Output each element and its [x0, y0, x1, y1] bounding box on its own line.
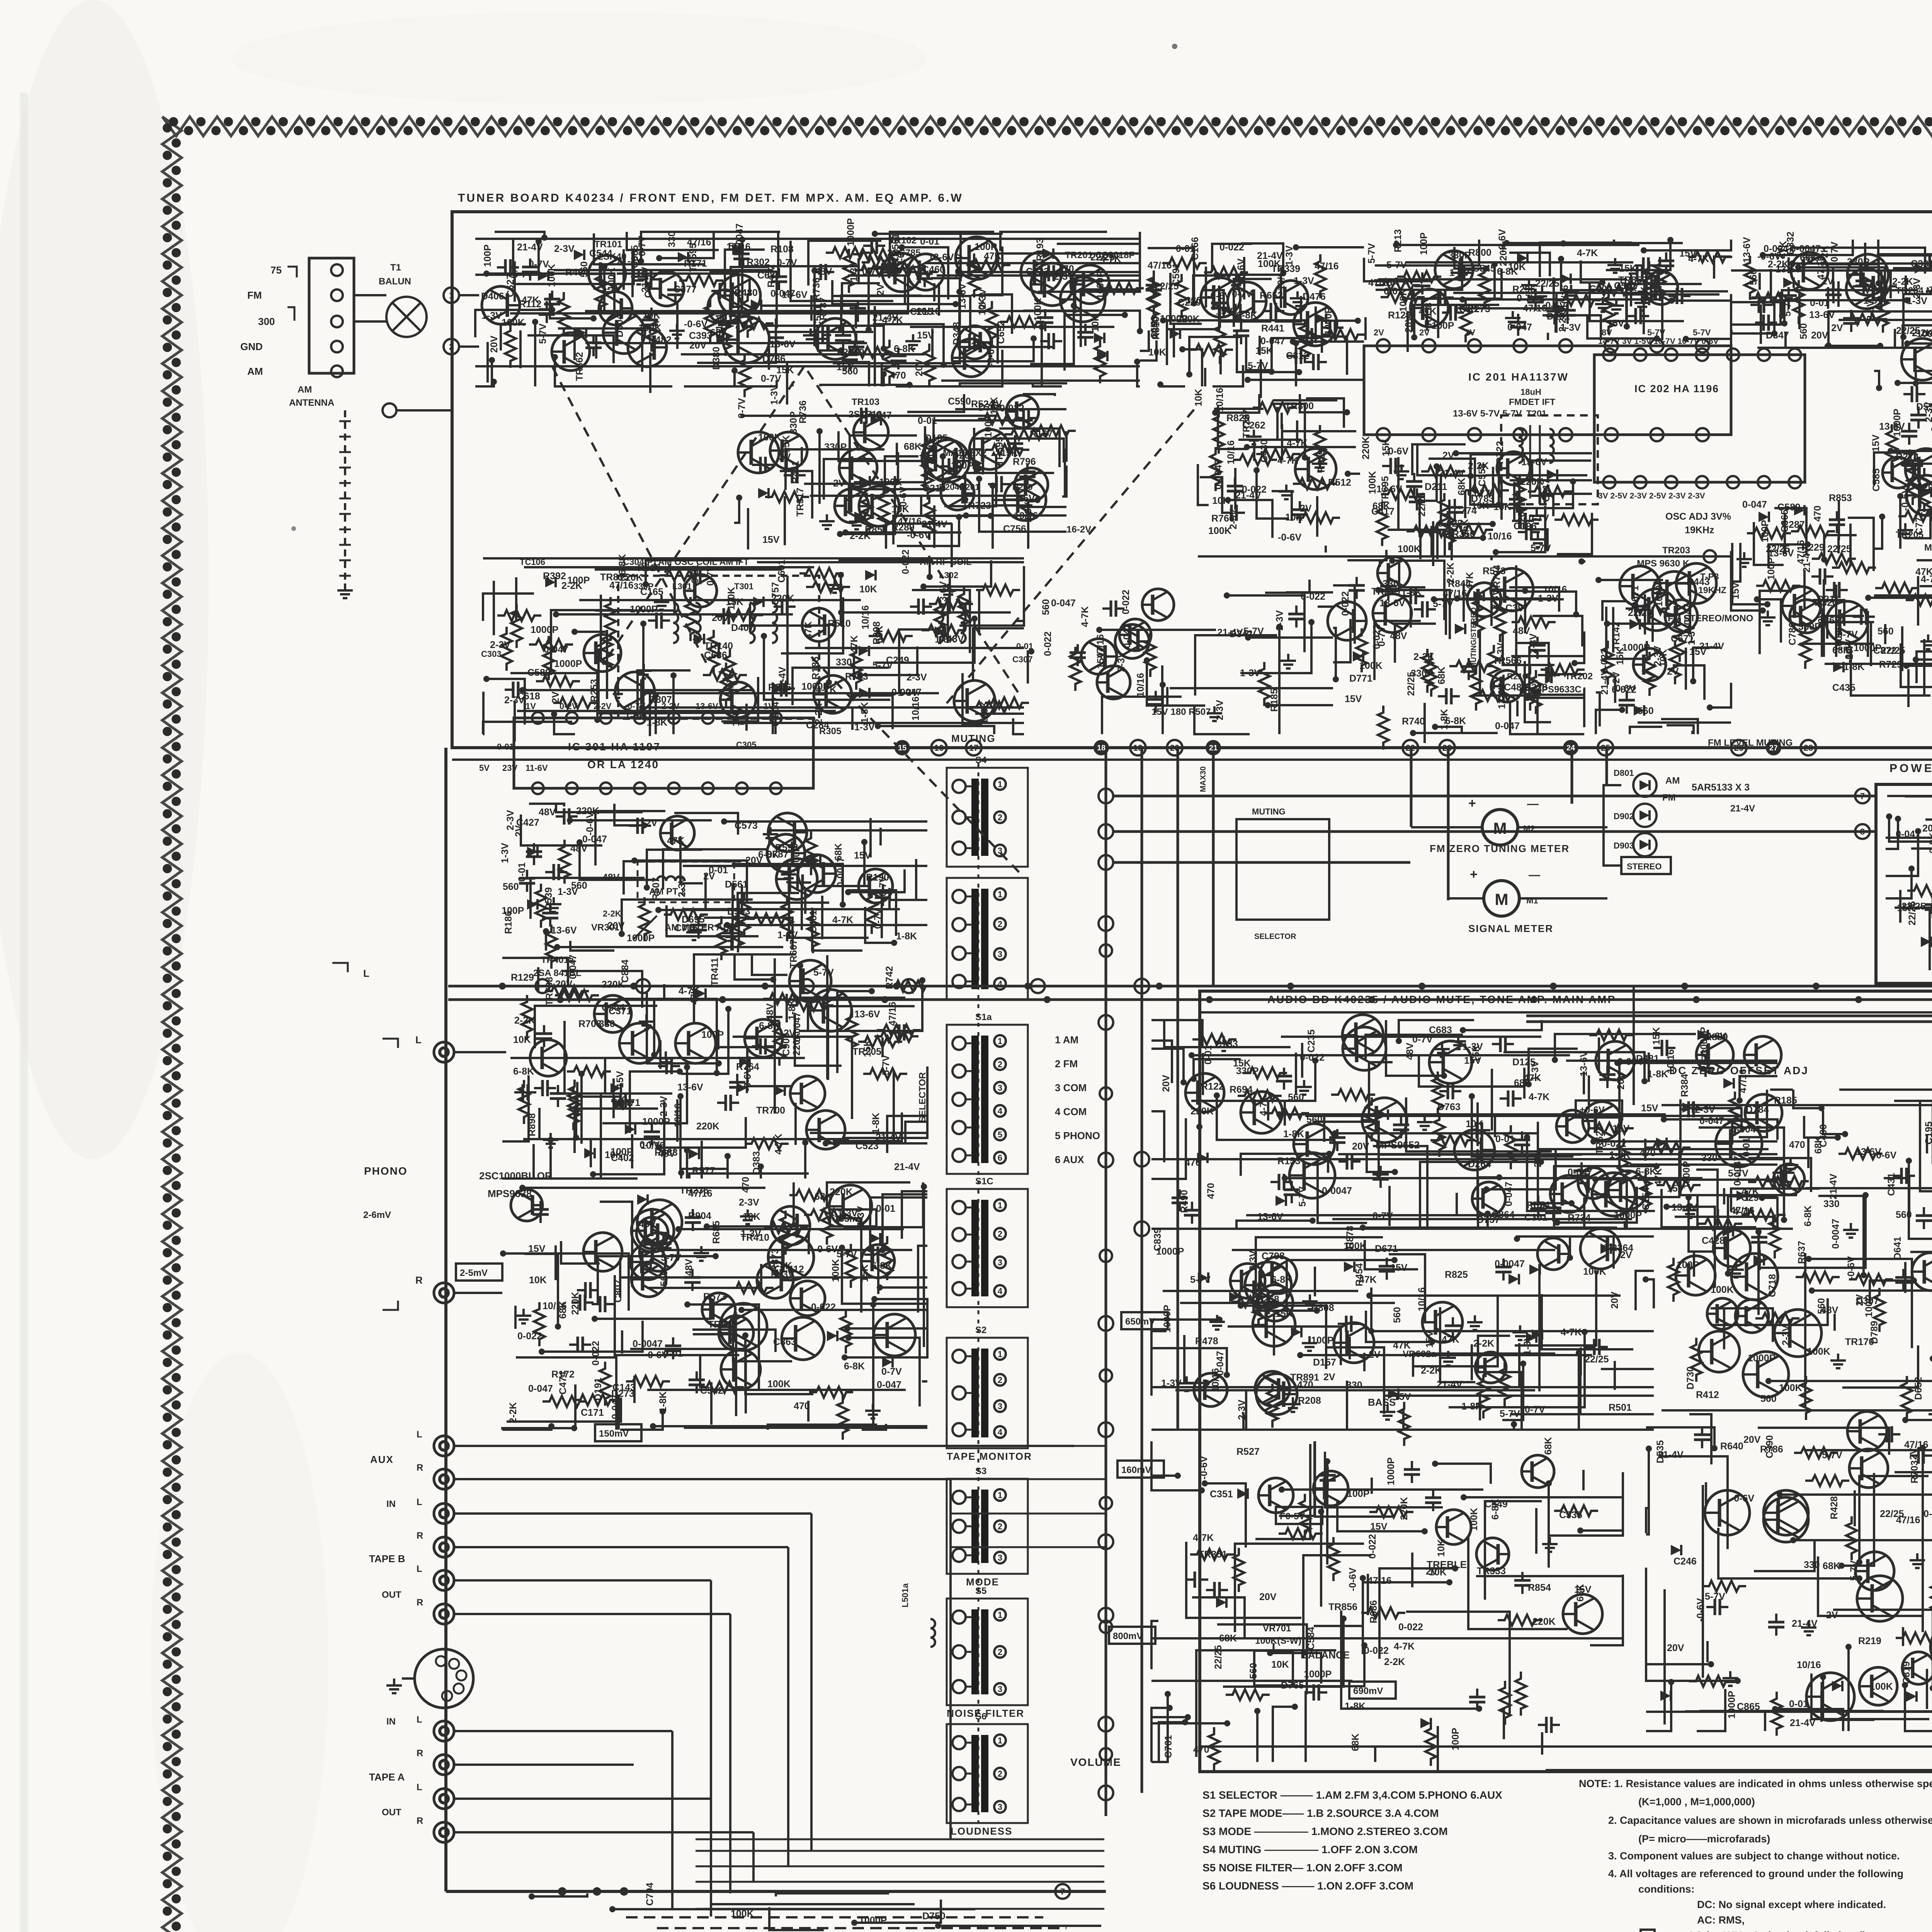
svg-text:13-6V: 13-6V [854, 1009, 880, 1020]
svg-text:6: 6 [998, 1153, 1002, 1163]
svg-text:100K: 100K [1359, 660, 1383, 671]
svg-text:5-7V: 5-7V [1386, 260, 1407, 270]
svg-text:28: 28 [1804, 743, 1813, 753]
svg-text:330P: 330P [824, 442, 847, 452]
svg-text:0-047: 0-047 [568, 954, 578, 979]
svg-text:C686: C686 [704, 650, 727, 661]
svg-text:C430: C430 [1259, 439, 1270, 463]
svg-text:2: 2 [998, 919, 1002, 929]
svg-text:2-2K: 2-2K [508, 1402, 519, 1423]
svg-text:D383: D383 [751, 1151, 762, 1174]
svg-text:10/16: 10/16 [916, 306, 940, 317]
svg-text:0-7V: 0-7V [872, 908, 883, 929]
svg-text:AM RF COIL: AM RF COIL [920, 557, 971, 567]
svg-text:0-01: 0-01 [1203, 1045, 1214, 1065]
svg-text:MPS9633C: MPS9633C [1534, 684, 1582, 695]
svg-text:47/16: 47/16 [1148, 260, 1172, 271]
svg-text:21-4V: 21-4V [872, 312, 898, 323]
svg-text:22/25: 22/25 [1628, 607, 1652, 618]
svg-text:AUDIO BD K40235 / AUDIO MUTE,: AUDIO BD K40235 / AUDIO MUTE, TONE AMP. … [1267, 993, 1616, 1005]
svg-text:PHONO: PHONO [364, 1165, 408, 1177]
svg-text:100P: 100P [1864, 1295, 1874, 1317]
svg-text:22/25: 22/25 [1535, 278, 1560, 289]
svg-text:R529: R529 [1316, 449, 1327, 473]
svg-text:10K: 10K [1493, 502, 1511, 512]
svg-text:D765: D765 [1281, 1680, 1304, 1691]
svg-text:1000P: 1000P [554, 658, 582, 669]
svg-text:0-022: 0-022 [1121, 590, 1131, 614]
svg-text:C819: C819 [1901, 1661, 1912, 1684]
svg-text:5V: 5V [479, 763, 490, 773]
svg-text:13-6V: 13-6V [1809, 310, 1835, 320]
svg-text:MPS9652: MPS9652 [1376, 1139, 1420, 1151]
svg-text:C235: C235 [1306, 1029, 1317, 1053]
svg-text:15K: 15K [1651, 1027, 1662, 1045]
svg-text:C393: C393 [689, 330, 712, 341]
svg-text:47K: 47K [1442, 1334, 1459, 1345]
svg-text:D590: D590 [1916, 401, 1932, 412]
svg-text:5AR5133 X 3: 5AR5133 X 3 [1692, 782, 1750, 793]
svg-text:1000P: 1000P [642, 1116, 670, 1127]
svg-text:R153: R153 [1277, 1156, 1301, 1167]
svg-text:220K: 220K [1498, 243, 1509, 266]
svg-text:2-3V: 2-3V [1248, 1250, 1259, 1271]
svg-text:47/16: 47/16 [1730, 1205, 1755, 1216]
svg-text:13-6V: 13-6V [770, 339, 796, 350]
svg-text:MUTING/STEREO: MUTING/STEREO [1470, 607, 1478, 668]
svg-text:100K(S-W): 100K(S-W) [1255, 1636, 1301, 1646]
svg-text:C817: C817 [1541, 479, 1552, 502]
svg-text:2V: 2V [1667, 666, 1679, 677]
svg-text:0-022: 0-022 [1364, 1645, 1389, 1656]
svg-text:TUNER BOARD K40234 / FRONT END: TUNER BOARD K40234 / FRONT END, FM DET. … [458, 192, 963, 204]
svg-text:13-6V: 13-6V [782, 289, 808, 300]
svg-text:C268: C268 [1256, 1294, 1279, 1305]
svg-text:1-3V: 1-3V [898, 687, 918, 698]
svg-text:1-8K: 1-8K [646, 717, 667, 728]
svg-text:470: 470 [1193, 1744, 1209, 1755]
svg-text:5-7V: 5-7V [1849, 1560, 1859, 1581]
svg-text:C774: C774 [1454, 505, 1477, 516]
svg-text:10K: 10K [1658, 649, 1669, 667]
svg-text:100P: 100P [951, 460, 973, 471]
svg-text:S3 MODE ————— 1.MONO 2.STE: S3 MODE ————— 1.MONO 2.STEREO 3.COM [1202, 1825, 1448, 1837]
svg-text:4. All voltages are referenced: 4. All voltages are referenced to ground… [1608, 1868, 1903, 1879]
svg-text:C733: C733 [1215, 1039, 1238, 1049]
svg-text:13-6V: 13-6V [928, 252, 954, 263]
svg-text:0-022: 0-022 [1602, 1138, 1626, 1149]
svg-text:R478: R478 [1195, 1336, 1218, 1347]
svg-text:R573: R573 [703, 1291, 726, 1302]
svg-text:10/16: 10/16 [673, 1103, 684, 1128]
svg-text:3: 3 [998, 1553, 1002, 1563]
svg-text:R742: R742 [884, 966, 895, 989]
svg-text:TC106: TC106 [520, 557, 545, 567]
svg-text:0-047: 0-047 [1495, 721, 1520, 731]
svg-text:R694: R694 [1230, 1084, 1253, 1095]
svg-text:0-01: 0-01 [690, 564, 701, 583]
svg-text:48V: 48V [570, 843, 588, 854]
svg-text:R524: R524 [1527, 1200, 1550, 1211]
svg-text:10K: 10K [1844, 642, 1855, 660]
svg-text:TR607: TR607 [788, 939, 799, 968]
svg-text:AM: AM [1665, 776, 1680, 786]
svg-text:6-8K: 6-8K [1497, 266, 1518, 277]
svg-text:4-7K: 4-7K [1080, 606, 1090, 627]
svg-text:68K: 68K [1350, 1733, 1361, 1751]
svg-text:220K: 220K [696, 1121, 719, 1132]
svg-text:68K: 68K [1543, 1437, 1554, 1455]
svg-text:100P: 100P [502, 905, 524, 916]
svg-text:+0-6V: +0-6V [1580, 1105, 1605, 1115]
svg-text:4-7K: 4-7K [1193, 1532, 1214, 1543]
svg-text:5-7V: 5-7V [1248, 361, 1268, 371]
svg-text:C558: C558 [1477, 463, 1488, 486]
svg-text:R527: R527 [1236, 1446, 1260, 1457]
svg-text:D786: D786 [762, 354, 786, 364]
svg-text:M2: M2 [1523, 824, 1535, 833]
svg-text:470: 470 [1812, 505, 1823, 522]
svg-text:20V: 20V [689, 340, 707, 351]
svg-text:4-7K: 4-7K [1394, 1641, 1415, 1652]
svg-text:NOTE: 1. Resistance values ar: NOTE: 1. Resistance values are indicated… [1579, 1778, 1932, 1789]
svg-text:2-3V: 2-3V [739, 1197, 759, 1208]
svg-text:6-8K: 6-8K [1271, 1274, 1292, 1285]
svg-text:D787: D787 [765, 849, 789, 860]
svg-text:D476: D476 [1303, 291, 1326, 302]
svg-text:2-3V: 2-3V [1214, 700, 1225, 720]
svg-text:R412: R412 [1696, 1389, 1719, 1400]
svg-text:220K: 220K [570, 1292, 581, 1315]
svg-text:220K: 220K [1532, 1616, 1556, 1627]
svg-text:BALANCE: BALANCE [1301, 1649, 1350, 1661]
svg-text:15V: 15V [528, 1243, 546, 1254]
svg-text:C304(P) AM OSC COIL AM IFT: C304(P) AM OSC COIL AM IFT [623, 557, 749, 567]
svg-text:C807: C807 [613, 1279, 624, 1303]
svg-text:0-7V: 0-7V [862, 266, 883, 277]
svg-text:100K: 100K [879, 477, 902, 488]
svg-text:D407: D407 [731, 622, 754, 633]
svg-text:22/25: 22/25 [1213, 1645, 1224, 1669]
svg-text:47K: 47K [667, 835, 685, 846]
svg-text:D195: D195 [925, 433, 948, 444]
svg-text:2-2K: 2-2K [1557, 311, 1568, 332]
svg-text:0-7V: 0-7V [1829, 241, 1840, 262]
svg-text:2-2K: 2-2K [514, 1015, 535, 1026]
svg-text:1-8K: 1-8K [1345, 1701, 1366, 1712]
svg-text:0-01: 0-01 [1495, 1134, 1515, 1145]
svg-text:100P: 100P [482, 245, 493, 267]
svg-text:20V: 20V [1532, 1150, 1543, 1167]
svg-text:330: 330 [971, 341, 987, 352]
svg-text:L: L [417, 1714, 422, 1725]
svg-text:C435: C435 [1832, 682, 1855, 693]
svg-text:2V: 2V [1369, 1349, 1381, 1360]
svg-text:0-047: 0-047 [528, 1383, 553, 1394]
svg-text:68K: 68K [874, 626, 885, 643]
svg-text:BASS: BASS [1368, 1396, 1396, 1408]
svg-text:2V: 2V [1419, 328, 1430, 337]
svg-text:10/16: 10/16 [1543, 584, 1567, 595]
svg-text:470: 470 [1639, 1148, 1656, 1158]
svg-text:R441: R441 [1261, 323, 1284, 334]
svg-text:5-7V: 5-7V [813, 967, 834, 978]
svg-text:R825: R825 [1445, 1269, 1468, 1280]
svg-text:560: 560 [1878, 626, 1894, 637]
svg-text:M1: M1 [1526, 896, 1538, 905]
svg-text:R736: R736 [811, 277, 822, 301]
svg-text:2: 2 [998, 1769, 1002, 1779]
svg-text:48V: 48V [684, 1259, 694, 1276]
svg-text:13-6V: 13-6V [1497, 683, 1507, 709]
svg-text:R510: R510 [828, 618, 851, 629]
svg-text:10K: 10K [1429, 1567, 1447, 1578]
svg-text:10K: 10K [529, 1275, 547, 1286]
svg-text:20: 20 [1170, 743, 1179, 753]
svg-text:21-4V: 21-4V [1439, 468, 1464, 479]
svg-text:6-8K: 6-8K [759, 1020, 780, 1031]
svg-text:R637: R637 [1796, 1241, 1807, 1264]
svg-text:10K: 10K [1436, 1539, 1447, 1557]
svg-text:15V 180 R507: 15V 180 R507 [1151, 707, 1211, 717]
svg-text:C481: C481 [808, 910, 819, 933]
svg-text:R: R [417, 1597, 423, 1608]
svg-text:R764: R764 [736, 1061, 759, 1072]
svg-text:20V: 20V [1616, 1072, 1626, 1090]
svg-text:D801: D801 [1614, 768, 1634, 778]
svg-text:7: 7 [1060, 1887, 1065, 1896]
svg-text:▲ 15K: ▲ 15K [989, 448, 1018, 458]
svg-text:2V: 2V [1323, 1372, 1335, 1383]
svg-text:2-3V: 2-3V [1054, 271, 1074, 282]
svg-text:1-3V: 1-3V [741, 1228, 761, 1239]
svg-text:D757: D757 [1477, 1214, 1500, 1225]
svg-text:C865: C865 [1737, 1701, 1760, 1712]
svg-text:R253: R253 [589, 679, 600, 702]
svg-text:220K: 220K [1917, 482, 1932, 493]
svg-text:S3: S3 [975, 1466, 986, 1476]
svg-text:R640: R640 [1720, 1441, 1743, 1452]
svg-text:TR287: TR287 [1241, 409, 1252, 438]
svg-text:R494: R494 [565, 267, 588, 278]
svg-text:L: L [415, 1034, 422, 1046]
svg-text:4 COM: 4 COM [1055, 1106, 1087, 1117]
svg-text:R384: R384 [1679, 1074, 1690, 1097]
svg-text:47/16: 47/16 [887, 1002, 898, 1026]
svg-text:23: 23 [1442, 743, 1452, 753]
svg-text:1-3V: 1-3V [1394, 276, 1415, 287]
svg-text:0-01: 0-01 [1741, 1138, 1752, 1157]
svg-text:15K: 15K [859, 1264, 870, 1282]
svg-text:1000P: 1000P [1304, 1669, 1332, 1680]
svg-text:S2 TAPE MODE—— 1.B 2.S: S2 TAPE MODE—— 1.B 2.SOURCE 3.A 4.COM [1202, 1807, 1439, 1819]
svg-text:15K: 15K [731, 709, 742, 726]
svg-text:15V: 15V [1871, 434, 1881, 452]
svg-text:15V: 15V [1730, 582, 1741, 599]
svg-text:2: 2 [998, 1375, 1002, 1385]
svg-text:1-3V: 1-3V [500, 843, 510, 863]
svg-text:······· AC (at 1KHz, 8 ohm loa: ······· AC (at 1KHz, 8 ohm load, full si… [1661, 1930, 1869, 1932]
svg-text:15: 15 [898, 744, 906, 752]
svg-text:-0-6V: -0-6V [1199, 1456, 1209, 1480]
svg-text:560: 560 [1638, 706, 1654, 716]
svg-text:48V: 48V [539, 807, 556, 818]
svg-text:13-6V: 13-6V [1768, 548, 1794, 559]
svg-text:11-6V: 11-6V [526, 763, 548, 773]
svg-text:0-7V: 0-7V [881, 1366, 902, 1377]
svg-text:S1 SELECTOR ——— 1.AM 2.F: S1 SELECTOR ——— 1.AM 2.FM 3,4.COM 5.PHON… [1202, 1789, 1502, 1801]
svg-text:C677: C677 [1467, 488, 1490, 499]
svg-text:1000P: 1000P [1160, 313, 1188, 324]
svg-text:560: 560 [842, 366, 858, 377]
svg-text:2-3V: 2-3V [1274, 610, 1285, 631]
svg-text:L301: L301 [672, 582, 692, 591]
svg-text:10K: 10K [1285, 512, 1303, 523]
svg-text:0-7V: 0-7V [761, 373, 781, 384]
svg-text:C246: C246 [1673, 1556, 1697, 1567]
svg-text:R844: R844 [1448, 578, 1471, 589]
svg-text:220K: 220K [1399, 1497, 1410, 1520]
svg-text:1000P: 1000P [845, 218, 856, 246]
svg-text:1-8K: 1-8K [625, 711, 646, 721]
svg-text:0-047: 0-047 [1742, 499, 1767, 510]
svg-text:D784: D784 [1746, 1104, 1769, 1115]
svg-text:D539: D539 [543, 887, 554, 910]
svg-text:21-4V: 21-4V [1699, 641, 1724, 651]
svg-text:C307: C307 [1012, 655, 1033, 664]
svg-text:R: R [417, 1816, 423, 1826]
svg-text:470: 470 [611, 1095, 627, 1105]
svg-text:D191: D191 [593, 1378, 604, 1401]
svg-text:4: 4 [998, 1286, 1003, 1296]
svg-text:3: 3 [998, 1684, 1002, 1694]
svg-text:21-4V: 21-4V [1792, 1618, 1818, 1629]
svg-text:22/25: 22/25 [1907, 901, 1918, 925]
svg-text:2-3V: 2-3V [658, 1096, 669, 1116]
svg-text:1-3V: 1-3V [837, 1208, 858, 1219]
svg-text:2-3V: 2-3V [1236, 1400, 1247, 1420]
svg-text:330: 330 [667, 231, 677, 247]
svg-text:(P= micro——microfarads): (P= micro——microfarads) [1638, 1833, 1770, 1845]
svg-text:0-01: 0-01 [1789, 1699, 1808, 1709]
svg-text:47/16: 47/16 [1896, 1515, 1920, 1526]
svg-text:160mV: 160mV [1121, 1465, 1151, 1475]
svg-text:2-2V: 2-2V [594, 701, 612, 711]
svg-text:2V: 2V [1620, 1250, 1632, 1260]
svg-text:10K: 10K [513, 1034, 531, 1045]
svg-text:16: 16 [934, 743, 944, 753]
svg-text:OSC ADJ 3V%: OSC ADJ 3V% [1665, 511, 1731, 522]
svg-text:68K: 68K [815, 1191, 832, 1202]
svg-text:C431: C431 [1886, 1173, 1897, 1196]
svg-text:560: 560 [659, 1270, 670, 1286]
svg-text:470: 470 [740, 1177, 751, 1193]
svg-text:1000P: 1000P [1386, 1458, 1396, 1485]
svg-text:C863: C863 [773, 1337, 796, 1347]
svg-text:2SC710: 2SC710 [849, 409, 882, 420]
svg-text:0-047: 0-047 [1260, 336, 1285, 347]
svg-text:560: 560 [1798, 323, 1809, 339]
svg-text:C351: C351 [1210, 1489, 1233, 1500]
svg-text:C335: C335 [1559, 1510, 1582, 1520]
svg-text:OUT: OUT [382, 1807, 401, 1818]
svg-text:3. Component values are subjec: 3. Component values are subject to chang… [1608, 1850, 1900, 1862]
svg-text:C621: C621 [1822, 615, 1845, 626]
svg-text:AM: AM [247, 366, 263, 377]
svg-text:8: 8 [1860, 827, 1865, 837]
svg-text:330P: 330P [634, 582, 653, 591]
svg-text:TR219: TR219 [1371, 586, 1400, 597]
svg-text:330: 330 [1701, 1153, 1718, 1163]
svg-text:0-01: 0-01 [1016, 641, 1033, 651]
svg-text:1 AM: 1 AM [1055, 1034, 1078, 1046]
svg-text:R428: R428 [1829, 1496, 1840, 1519]
svg-text:TR794: TR794 [1492, 565, 1502, 594]
svg-text:0-047: 0-047 [877, 1379, 901, 1390]
svg-text:0-047: 0-047 [1896, 829, 1920, 840]
svg-text:MUTING: MUTING [1252, 807, 1286, 816]
svg-text:48V: 48V [765, 1003, 776, 1020]
svg-text:-0-6V: -0-6V [1731, 1493, 1754, 1504]
svg-text:47/16: 47/16 [1367, 1575, 1392, 1586]
svg-text:4-7K: 4-7K [832, 915, 853, 925]
svg-text:47K: 47K [1419, 306, 1437, 317]
svg-text:C143: C143 [612, 1382, 636, 1393]
svg-text:C377: C377 [673, 284, 697, 295]
svg-text:0-022: 0-022 [1438, 518, 1463, 529]
svg-text:23V: 23V [502, 763, 517, 773]
svg-text:R: R [417, 1748, 423, 1759]
svg-text:2: 2 [998, 1060, 1002, 1069]
svg-text:1: 1 [998, 1201, 1002, 1210]
svg-text:6-8K: 6-8K [871, 1260, 892, 1271]
svg-text:1000P: 1000P [1726, 1691, 1737, 1719]
svg-text:0-7V: 0-7V [1525, 1404, 1545, 1415]
svg-text:0-01: 0-01 [918, 415, 937, 426]
svg-text:S1C: S1C [975, 1176, 993, 1187]
svg-text:21-4V: 21-4V [876, 1132, 901, 1143]
svg-text:470: 470 [1206, 1183, 1216, 1199]
svg-text:0-01: 0-01 [920, 236, 939, 247]
svg-text:10K: 10K [1193, 389, 1204, 406]
svg-text:0-7V: 0-7V [1232, 289, 1252, 299]
svg-text:-0-6V: -0-6V [1236, 259, 1247, 282]
svg-text:AM: AM [298, 384, 312, 395]
svg-text:R144: R144 [714, 314, 725, 337]
svg-text:C390: C390 [1764, 1435, 1775, 1458]
svg-text:R265: R265 [768, 682, 791, 693]
svg-text:220K: 220K [1361, 436, 1371, 459]
svg-text:0-7V: 0-7V [1529, 513, 1549, 524]
svg-text:47/16: 47/16 [1816, 255, 1827, 280]
svg-text:15V: 15V [1607, 318, 1624, 329]
svg-text:0-01: 0-01 [1176, 243, 1195, 254]
svg-text:R185: R185 [810, 656, 821, 680]
svg-text:5-7V: 5-7V [881, 1055, 891, 1075]
svg-text:C786: C786 [1787, 622, 1798, 645]
svg-text:1-3V: 1-3V [777, 930, 798, 940]
svg-text:13-6V 5-7V 5-7V: 13-6V 5-7V 5-7V [1453, 408, 1522, 419]
svg-text:2V: 2V [779, 452, 791, 463]
svg-text:6-8K: 6-8K [844, 1361, 865, 1372]
svg-text:D348: D348 [951, 322, 962, 345]
svg-text:R736: R736 [798, 400, 808, 423]
svg-text:47K: 47K [1393, 1340, 1411, 1351]
svg-text:6 AUX: 6 AUX [1055, 1154, 1084, 1165]
svg-text:-0-6V: -0-6V [1278, 532, 1301, 543]
svg-text:D671: D671 [1630, 585, 1641, 609]
svg-text:19KHz: 19KHz [1685, 525, 1714, 536]
